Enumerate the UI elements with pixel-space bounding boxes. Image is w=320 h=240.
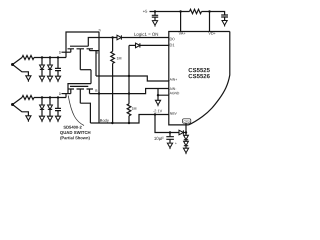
svg-text:CPD: CPD (184, 119, 191, 123)
svg-text:D0: D0 (170, 36, 176, 41)
svg-text:SD5400-2: SD5400-2 (63, 125, 82, 130)
svg-text:-2.1V: -2.1V (153, 109, 163, 113)
svg-text:10µF: 10µF (154, 136, 164, 141)
svg-text:VA+: VA+ (179, 32, 186, 36)
svg-text:Logic1 = ON: Logic1 = ON (134, 32, 159, 37)
svg-text:AGND: AGND (170, 91, 180, 95)
svg-text:+: + (175, 141, 177, 145)
svg-text:1M: 1M (117, 56, 122, 60)
svg-text:CS5526: CS5526 (188, 74, 210, 80)
svg-text:AIN+: AIN+ (170, 78, 178, 82)
svg-text:QUAD SWITCH: QUAD SWITCH (60, 130, 91, 135)
svg-text:+5: +5 (143, 9, 148, 14)
svg-text:NBV: NBV (170, 112, 178, 116)
svg-text:(Partial Shown): (Partial Shown) (60, 135, 90, 140)
svg-text:1M: 1M (131, 107, 136, 111)
svg-text:D1: D1 (170, 42, 176, 47)
svg-text:VD+: VD+ (208, 32, 215, 36)
svg-text:Body: Body (100, 118, 109, 123)
